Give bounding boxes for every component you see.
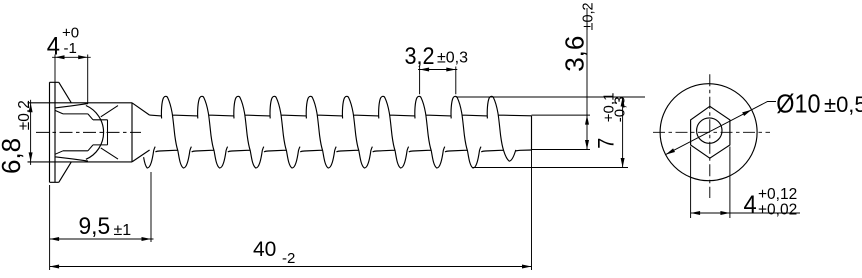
socket dome arc	[86, 106, 104, 160]
svg-text:+0: +0	[62, 25, 79, 42]
dimension 9,5 ±1 (head length)	[50, 172, 151, 270]
centerline side view	[36, 131, 141, 133]
end view: head circle	[660, 84, 757, 181]
svg-text:40: 40	[253, 238, 276, 261]
dimension 3,6 ±0,2 (core diameter)	[586, 8, 588, 150]
thread helix	[144, 96, 532, 168]
svg-text:4: 4	[47, 33, 60, 61]
svg-text:3,2: 3,2	[405, 42, 435, 69]
leader line Ø10	[666, 102, 776, 155]
dimension 3,2 ±0,3 (thread pitch)	[420, 67, 456, 95]
svg-text:±0,3: ±0,3	[437, 50, 468, 67]
dimension 4 +0,12/+0,02 (hex across flats)	[691, 147, 730, 219]
end view: socket bottom circle	[697, 118, 722, 143]
end view: hex socket	[691, 106, 730, 158]
svg-text:6,8: 6,8	[0, 138, 26, 174]
svg-text:±0,2: ±0,2	[580, 2, 596, 30]
svg-text:+0,02: +0,02	[758, 202, 797, 219]
screw head flange rim	[28, 82, 133, 182]
svg-text:7: 7	[595, 138, 619, 149]
svg-text:9,5: 9,5	[79, 213, 111, 240]
svg-text:4: 4	[744, 191, 757, 219]
svg-text:Ø10: Ø10	[776, 90, 820, 118]
svg-text:±0,2: ±0,2	[16, 100, 33, 130]
dimension 40 -2 (overall length)	[531, 150, 533, 270]
dimension 7 +0,1/-0,3 (thread outer diameter)	[622, 97, 624, 168]
cone transition head to shaft	[132, 103, 150, 162]
svg-text:3,6: 3,6	[559, 36, 589, 72]
svg-text:±1: ±1	[114, 222, 132, 239]
svg-text:-1: -1	[64, 40, 77, 57]
dimension 4 +0/-1 (flange width)	[55, 55, 88, 105]
shaft end cap	[531, 116, 533, 150]
svg-text:-0,3: -0,3	[612, 96, 629, 122]
dimension 6,8 ±0,2 (flange rim diameter)	[30, 100, 32, 165]
svg-text:-2: -2	[282, 250, 295, 267]
svg-text:±0,5: ±0,5	[824, 92, 862, 117]
extension lines for 7 and 3,6 dims	[456, 97, 645, 168]
end view: centerlines	[653, 131, 770, 133]
hex socket (side view)	[55, 106, 118, 160]
svg-text:+0,12: +0,12	[758, 186, 797, 203]
